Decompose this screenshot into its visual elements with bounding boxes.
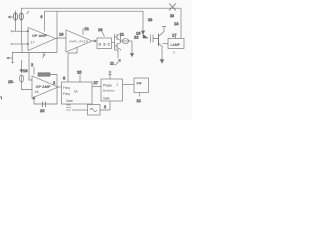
wire U1 feedback down x57 bbox=[56, 39, 58, 53]
wire oval1 bottom down bbox=[15, 20, 17, 31]
capacitor C1 bbox=[151, 35, 159, 43]
svg-text:Gate: Gate bbox=[66, 99, 73, 103]
op-amp U1 triangle bbox=[28, 28, 56, 51]
transistor Q1 base bar bbox=[158, 34, 160, 47]
lamp box 17 bbox=[168, 39, 184, 49]
svg-text:2: 2 bbox=[31, 62, 34, 67]
phase top stub with ticks bbox=[109, 71, 112, 80]
svg-text:FlF: FlF bbox=[137, 82, 143, 86]
svg-text:2: 2 bbox=[117, 83, 119, 87]
svg-text:17: 17 bbox=[31, 41, 35, 45]
transducer 12 plate bbox=[15, 13, 17, 20]
svg-text:23: 23 bbox=[170, 14, 174, 18]
svg-text:17: 17 bbox=[172, 33, 177, 38]
feedback resistor R1 stub bbox=[33, 67, 35, 75]
svg-text:19: 19 bbox=[98, 27, 103, 32]
transducer 15 plate bbox=[21, 75, 23, 82]
crystal Y1 bars bbox=[66, 104, 71, 110]
sound arrow bottom left bbox=[6, 53, 13, 64]
junction dot A2 output bbox=[94, 40, 96, 42]
arrowhead into U2 bottom bbox=[33, 97, 36, 100]
svg-text:OP AMP: OP AMP bbox=[36, 84, 52, 89]
transducer 12 oval bbox=[13, 13, 17, 20]
label 21 stub bbox=[82, 28, 84, 35]
frequency box bbox=[62, 82, 93, 104]
transistor Q1 emitter bbox=[159, 43, 163, 60]
label 17 leader bbox=[175, 37, 176, 39]
label 17 leader arrow below wire bbox=[43, 53, 46, 59]
wire right vertical from top bus bbox=[180, 8, 182, 38]
op-amp U1 input terminals bbox=[27, 31, 28, 32]
transistor Q1 collector bbox=[159, 27, 167, 37]
svg-text:6: 6 bbox=[41, 15, 43, 19]
svg-text:22: 22 bbox=[134, 35, 139, 40]
page edge mark bbox=[0, 97, 2, 100]
svg-text:25: 25 bbox=[77, 70, 82, 75]
label 12 leader bbox=[27, 11, 30, 14]
transducer 15 oval bbox=[19, 75, 23, 82]
node X antenna symbol 23 bbox=[169, 4, 176, 11]
input arrow left bbox=[8, 16, 13, 18]
resistor R1 bbox=[38, 73, 50, 76]
svg-text:Detector: Detector bbox=[103, 89, 115, 93]
oval1 top stub bbox=[15, 11, 17, 14]
wire second top bus y11 bbox=[45, 10, 144, 12]
wire U2 bottom loop bbox=[34, 87, 57, 104]
wire A2 output bbox=[92, 40, 97, 42]
flip flop box bbox=[134, 78, 149, 93]
emitter arrowhead bbox=[160, 60, 164, 63]
left bus to U2 bbox=[29, 53, 32, 81]
sounder oval 11 bbox=[122, 39, 128, 44]
transistor Q2 upper bbox=[115, 33, 121, 41]
svg-text:11: 11 bbox=[120, 32, 125, 37]
wire Q1 to lamp box bbox=[163, 43, 169, 45]
wire phase to flipflop bbox=[123, 84, 135, 86]
label 19 leader bbox=[102, 32, 105, 37]
transducer 13 plate bbox=[20, 13, 22, 20]
stub 25 into freq box bbox=[79, 75, 81, 83]
driver pair rail bbox=[114, 34, 116, 50]
wire vertical x21 joining inputs bbox=[20, 31, 22, 44]
wire vertical x143 down to driver bbox=[142, 11, 144, 34]
transducer 13 oval bbox=[19, 13, 23, 20]
svg-text:13: 13 bbox=[174, 21, 179, 26]
wire transducer 15 to U2 minus bbox=[22, 82, 33, 90]
wire freq to phase bbox=[92, 86, 101, 88]
svg-text:27: 27 bbox=[94, 80, 99, 85]
wire top bus y8 bbox=[21, 7, 181, 9]
svg-text:16: 16 bbox=[35, 90, 39, 94]
svg-text:OP AMP: OP AMP bbox=[32, 33, 48, 38]
wire A2 bottom loop bbox=[68, 48, 77, 83]
arrow down at x132 bbox=[130, 52, 133, 57]
wire left tick y31 bbox=[10, 30, 12, 32]
oscillator box 19 bbox=[97, 38, 112, 49]
capacitor C2 in loop bbox=[43, 102, 46, 108]
arrow to transducer 15 bbox=[20, 60, 23, 73]
svg-text:26: 26 bbox=[40, 108, 45, 113]
svg-text:11: 11 bbox=[110, 61, 115, 66]
svg-text:2: 2 bbox=[104, 105, 106, 109]
wire pair to sounder bbox=[121, 40, 133, 42]
junction tick output bbox=[56, 37, 58, 40]
svg-text:5: 5 bbox=[63, 76, 66, 81]
wire U2 output bbox=[58, 86, 62, 88]
svg-text:λλ: λλ bbox=[74, 90, 78, 94]
leader arrow 11 bbox=[115, 60, 121, 66]
op-amp U2 triangle bbox=[32, 76, 58, 98]
wire oval2 bottom down bbox=[20, 20, 22, 31]
svg-text:2: 2 bbox=[53, 80, 56, 85]
oscillator small box bbox=[88, 105, 101, 116]
svg-text:21: 21 bbox=[85, 26, 90, 31]
wire oval2 top to top bus bbox=[20, 8, 22, 13]
stub below flip flop bbox=[139, 93, 141, 97]
svg-text:18: 18 bbox=[23, 68, 28, 73]
svg-text:21: 21 bbox=[137, 98, 142, 103]
phase detector box bbox=[101, 79, 123, 101]
svg-text:18: 18 bbox=[59, 32, 64, 37]
wire stub to op-amp U1 top bbox=[44, 11, 46, 31]
wire R1 to output bbox=[50, 75, 57, 88]
svg-text:OSC: OSC bbox=[99, 42, 111, 46]
wire left tick y44 bbox=[10, 43, 12, 45]
wire U1 minus input y44 bbox=[12, 43, 28, 45]
wire U1 plus input y31 bbox=[12, 30, 28, 32]
wire cross tick x22 bbox=[21, 44, 23, 53]
amplifier A2 triangle bbox=[66, 30, 92, 52]
tiny terminal below box bbox=[173, 52, 175, 54]
svg-text:Phase: Phase bbox=[103, 84, 112, 88]
svg-text:LAMP: LAMP bbox=[171, 43, 181, 47]
wire U1 output y36.5 bbox=[56, 37, 67, 40]
wire feedback vertical x57 bbox=[56, 11, 58, 36]
transistor Q3 lower bbox=[115, 41, 121, 51]
wire phase bottom bbox=[100, 101, 110, 110]
svg-text:AMPLIFIER: AMPLIFIER bbox=[69, 39, 88, 43]
svg-text:Freq: Freq bbox=[63, 86, 70, 90]
wire pair bottom jog bbox=[115, 50, 119, 58]
wire sounder right down bbox=[131, 41, 133, 52]
svg-text:23: 23 bbox=[148, 18, 152, 22]
wire box19 to pair bbox=[112, 42, 115, 44]
svg-text:Gate: Gate bbox=[103, 97, 110, 101]
wire small box left bbox=[72, 109, 88, 111]
svg-text:Freq: Freq bbox=[63, 92, 70, 96]
wire feedback bottom y52.5 bbox=[12, 52, 57, 54]
svg-text:15-: 15- bbox=[8, 79, 14, 84]
sine symbol bbox=[90, 109, 97, 112]
driver arrowhead on x143 bbox=[141, 31, 148, 38]
